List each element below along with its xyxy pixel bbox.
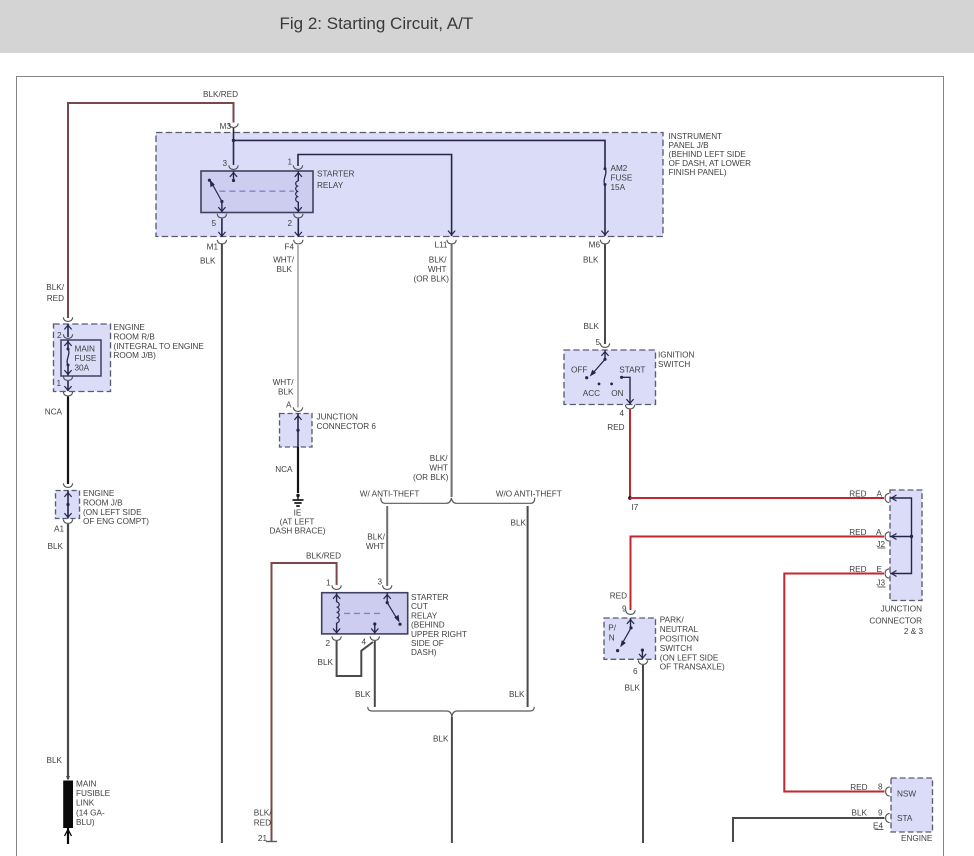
svg-text:3: 3 bbox=[222, 159, 227, 168]
svg-text:L11: L11 bbox=[434, 241, 447, 250]
svg-text:BLK: BLK bbox=[583, 256, 599, 265]
svg-text:BLK/RED: BLK/RED bbox=[203, 90, 238, 99]
svg-text:A: A bbox=[877, 489, 883, 498]
wire NCA from JC6 to ground bbox=[275, 447, 298, 493]
merge brace bbox=[368, 707, 535, 717]
wire BLK/RED from fusible link to M3 bbox=[46, 90, 238, 318]
svg-text:(AT LEFT: (AT LEFT bbox=[280, 518, 315, 527]
svg-text:BLK: BLK bbox=[511, 519, 527, 528]
wire BLK/WHT branch to starter cut relay pin 3 bbox=[366, 506, 387, 586]
svg-text:F4: F4 bbox=[284, 243, 294, 252]
connector pin 1 of starter relay bbox=[287, 158, 302, 170]
connector pin 3 of starter cut relay bbox=[377, 578, 391, 590]
svg-text:I7: I7 bbox=[632, 503, 639, 512]
svg-text:2: 2 bbox=[287, 219, 292, 228]
starter relay switch contacts bbox=[208, 171, 237, 213]
svg-text:A: A bbox=[876, 528, 882, 537]
svg-text:WHT: WHT bbox=[429, 464, 448, 473]
connector M6 bbox=[583, 240, 610, 265]
svg-text:ENGINE: ENGINE bbox=[114, 323, 146, 332]
wire pin1 to L11 bbox=[298, 155, 452, 237]
connector pin 5 of starter relay bbox=[211, 214, 226, 237]
svg-text:STARTER: STARTER bbox=[411, 593, 449, 602]
connector cups on JC 2&3 pins bbox=[876, 493, 889, 587]
svg-text:15A: 15A bbox=[611, 183, 626, 192]
svg-text:START: START bbox=[619, 366, 645, 375]
svg-text:1: 1 bbox=[287, 158, 292, 167]
svg-text:FUSE: FUSE bbox=[611, 173, 633, 182]
svg-text:BLK: BLK bbox=[355, 690, 371, 699]
svg-text:OF TRANSAXLE): OF TRANSAXLE) bbox=[660, 663, 725, 672]
connector pin 3 of starter relay bbox=[222, 159, 238, 169]
svg-text:PARK/: PARK/ bbox=[660, 616, 685, 625]
svg-text:6: 6 bbox=[633, 667, 638, 676]
svg-text:(BEHIND: (BEHIND bbox=[411, 621, 445, 630]
svg-text:30A: 30A bbox=[75, 363, 90, 372]
svg-text:IGNITION: IGNITION bbox=[658, 351, 694, 360]
svg-text:M6: M6 bbox=[589, 241, 601, 250]
engine room J/B box bbox=[56, 489, 150, 526]
svg-text:NEUTRAL: NEUTRAL bbox=[660, 625, 699, 634]
svg-text:N: N bbox=[609, 634, 615, 643]
svg-text:ROOM J/B): ROOM J/B) bbox=[114, 351, 157, 360]
ignition switch box bbox=[564, 350, 694, 405]
svg-text:MAIN: MAIN bbox=[76, 780, 97, 789]
svg-text:ENGINE: ENGINE bbox=[83, 489, 115, 498]
connector M1 bbox=[200, 240, 227, 266]
starter relay mechanical dashed link bbox=[219, 190, 293, 192]
svg-text:PANEL J/B: PANEL J/B bbox=[669, 141, 710, 150]
wire RED J2 to park/neutral switch bbox=[610, 528, 884, 614]
svg-text:POSITION: POSITION bbox=[660, 635, 699, 644]
connector M3 bbox=[220, 122, 239, 131]
svg-text:1: 1 bbox=[326, 579, 331, 588]
connector pin 4 of starter cut relay bbox=[361, 636, 379, 646]
svg-text:BLK/: BLK/ bbox=[429, 256, 447, 265]
instrument panel J/B box bbox=[156, 132, 751, 237]
svg-text:E4: E4 bbox=[873, 821, 883, 830]
starter cut relay coil bbox=[333, 593, 340, 634]
svg-text:BLK: BLK bbox=[852, 809, 868, 818]
svg-text:BLK/: BLK/ bbox=[367, 533, 385, 542]
svg-text:(BEHIND LEFT SIDE: (BEHIND LEFT SIDE bbox=[669, 150, 747, 159]
wire BLK loop pin2 to pin4 bbox=[318, 641, 373, 676]
svg-text:OF ENG COMPT): OF ENG COMPT) bbox=[83, 517, 149, 526]
connector pin 2 of R/B bbox=[57, 317, 73, 340]
svg-text:ROOM R/B: ROOM R/B bbox=[114, 332, 156, 341]
connector cups on engine pins bbox=[886, 787, 890, 823]
svg-text:BLK/: BLK/ bbox=[430, 454, 448, 463]
connector into engine room J/B bbox=[63, 483, 72, 487]
svg-text:J3: J3 bbox=[876, 579, 885, 588]
svg-text:MAIN: MAIN bbox=[75, 345, 96, 354]
node I7 bbox=[628, 496, 639, 512]
svg-text:DASH): DASH) bbox=[411, 648, 437, 657]
wire NCA to engine room J/B bbox=[45, 397, 68, 485]
anti-theft split brace bbox=[360, 490, 562, 504]
svg-text:BLK: BLK bbox=[433, 735, 449, 744]
svg-text:BLK: BLK bbox=[47, 756, 63, 765]
svg-text:(ON LEFT SIDE: (ON LEFT SIDE bbox=[660, 653, 719, 662]
main fuse 30A bbox=[61, 340, 101, 376]
wire BLK from P/N pin 6 down bbox=[625, 665, 643, 843]
svg-text:IE: IE bbox=[294, 509, 302, 518]
svg-text:WHT/: WHT/ bbox=[273, 256, 295, 265]
svg-text:J2: J2 bbox=[876, 540, 885, 549]
svg-text:BLK: BLK bbox=[278, 388, 294, 397]
starter relay box bbox=[201, 170, 355, 213]
wire L11 exit arrow bbox=[448, 231, 455, 235]
wire M3 into J/B with junction node bbox=[232, 128, 235, 165]
svg-text:RELAY: RELAY bbox=[317, 181, 344, 190]
connector A1 bbox=[54, 519, 73, 533]
connector pin 6 of P/N switch bbox=[633, 660, 648, 676]
wire BLK w/o anti-theft branch bbox=[509, 506, 528, 707]
svg-text:2 & 3: 2 & 3 bbox=[904, 627, 924, 636]
AM2 fuse 15A bbox=[601, 164, 632, 236]
svg-text:SWITCH: SWITCH bbox=[658, 360, 690, 369]
connector pin 2 of starter relay bbox=[287, 214, 303, 237]
engine box bbox=[891, 778, 933, 843]
svg-text:ACC: ACC bbox=[583, 389, 600, 398]
svg-text:SWITCH: SWITCH bbox=[660, 644, 692, 653]
svg-text:8: 8 bbox=[878, 783, 883, 792]
svg-text:OF DASH, AT LOWER: OF DASH, AT LOWER bbox=[669, 159, 752, 168]
svg-text:4: 4 bbox=[619, 409, 624, 418]
starter cut relay mechanical dashed link bbox=[344, 612, 380, 614]
svg-text:NSW: NSW bbox=[897, 790, 916, 799]
junction connector 2 & 3 box bbox=[869, 490, 923, 636]
engine room R/B box bbox=[54, 323, 205, 392]
svg-text:M3: M3 bbox=[220, 122, 232, 131]
svg-text:STA: STA bbox=[897, 814, 913, 823]
connector pin 4 of ignition switch bbox=[619, 405, 634, 418]
svg-text:BLK: BLK bbox=[48, 542, 64, 551]
svg-text:BLK/: BLK/ bbox=[46, 283, 64, 292]
svg-text:WHT: WHT bbox=[366, 542, 385, 551]
connector pin 1 of starter cut relay bbox=[326, 579, 341, 590]
svg-text:BLK/RED: BLK/RED bbox=[306, 552, 341, 561]
svg-text:RED: RED bbox=[850, 783, 867, 792]
svg-text:OFF: OFF bbox=[571, 366, 587, 375]
svg-text:2: 2 bbox=[325, 639, 330, 648]
wire RED I7 to junction connector pin A bbox=[630, 489, 884, 498]
wire F4 WHT/BLK down to junction connector 6 bbox=[273, 244, 298, 408]
connector 21 at page bottom bbox=[258, 834, 277, 843]
svg-text:3: 3 bbox=[377, 578, 382, 587]
svg-text:RED: RED bbox=[254, 819, 271, 828]
svg-text:(OR BLK): (OR BLK) bbox=[414, 275, 450, 284]
connector L11 bbox=[414, 240, 457, 284]
svg-text:21: 21 bbox=[258, 834, 268, 843]
svg-text:RED: RED bbox=[607, 423, 624, 432]
svg-text:FUSE: FUSE bbox=[75, 354, 97, 363]
svg-text:P/: P/ bbox=[608, 624, 616, 633]
svg-text:(INTEGRAL TO ENGINE: (INTEGRAL TO ENGINE bbox=[114, 342, 205, 351]
wire BLK/RED from connector 21 to starter cut relay pin 1 bbox=[254, 552, 341, 843]
connector pin 1 of R/B bbox=[56, 376, 72, 396]
svg-text:WHT: WHT bbox=[428, 265, 447, 274]
svg-text:(OR BLK): (OR BLK) bbox=[413, 473, 449, 482]
ignition switch contacts bbox=[571, 350, 645, 405]
svg-text:BLK: BLK bbox=[318, 658, 334, 667]
wire M1 BLK down to page bottom bbox=[221, 244, 223, 843]
connector pin 2 of starter cut relay bbox=[325, 636, 341, 648]
wire BLK merged down bbox=[433, 717, 452, 843]
svg-text:BLK: BLK bbox=[584, 322, 600, 331]
svg-text:UPPER RIGHT: UPPER RIGHT bbox=[411, 630, 467, 639]
svg-text:SIDE OF: SIDE OF bbox=[411, 639, 444, 648]
P/N switch contacts bbox=[616, 618, 646, 659]
svg-text:RED: RED bbox=[47, 294, 64, 303]
svg-text:WHT/: WHT/ bbox=[273, 378, 295, 387]
svg-text:ON: ON bbox=[611, 389, 623, 398]
svg-text:A1: A1 bbox=[54, 525, 64, 534]
svg-text:LINK: LINK bbox=[76, 799, 95, 808]
svg-text:M1: M1 bbox=[207, 243, 219, 252]
svg-text:5: 5 bbox=[595, 338, 600, 347]
svg-text:JUNCTION: JUNCTION bbox=[881, 605, 922, 614]
svg-text:BLU): BLU) bbox=[76, 818, 95, 827]
wire BLK pin4 to merge bbox=[355, 641, 375, 707]
svg-text:BLK/: BLK/ bbox=[254, 809, 272, 818]
svg-text:W/ ANTI-THEFT: W/ ANTI-THEFT bbox=[360, 490, 420, 499]
starter cut relay box bbox=[322, 593, 467, 658]
svg-text:RED: RED bbox=[610, 592, 627, 601]
svg-text:FINISH PANEL): FINISH PANEL) bbox=[669, 168, 727, 177]
svg-text:A: A bbox=[286, 401, 292, 410]
svg-text:(14 GA-: (14 GA- bbox=[76, 808, 105, 817]
svg-text:RED: RED bbox=[849, 489, 866, 498]
svg-text:1: 1 bbox=[56, 379, 61, 388]
svg-text:DASH BRACE): DASH BRACE) bbox=[270, 527, 326, 536]
svg-text:CONNECTOR: CONNECTOR bbox=[869, 616, 922, 625]
starter relay coil bbox=[295, 171, 302, 213]
main fusible link bbox=[63, 776, 110, 844]
connector pin 5 of ignition switch bbox=[595, 338, 609, 347]
svg-text:RED: RED bbox=[849, 528, 866, 537]
svg-text:FUSIBLE: FUSIBLE bbox=[76, 789, 111, 798]
header bar bbox=[0, 0, 974, 53]
wire L11 BLK/WHT down to split bbox=[413, 244, 452, 497]
svg-text:NCA: NCA bbox=[45, 408, 63, 417]
connector F4 bbox=[273, 240, 303, 274]
ground IE bbox=[270, 494, 326, 536]
svg-text:CONNECTOR 6: CONNECTOR 6 bbox=[317, 422, 377, 431]
svg-text:INSTRUMENT: INSTRUMENT bbox=[669, 132, 723, 141]
connector pin 9 of P/N switch bbox=[626, 610, 635, 614]
svg-text:BLK: BLK bbox=[509, 690, 525, 699]
svg-text:NCA: NCA bbox=[275, 465, 293, 474]
svg-text:BLK: BLK bbox=[200, 257, 216, 266]
svg-text:9: 9 bbox=[878, 809, 883, 818]
svg-text:ROOM J/B: ROOM J/B bbox=[83, 498, 123, 507]
svg-text:CUT: CUT bbox=[411, 602, 428, 611]
wire BLK to main fusible link bbox=[47, 524, 68, 779]
wire BLK to engine STA bbox=[733, 809, 885, 843]
svg-text:4: 4 bbox=[361, 638, 366, 647]
svg-text:BLK: BLK bbox=[625, 684, 641, 693]
wire RED ignition to node I7 bbox=[607, 410, 630, 499]
svg-text:Fig 2: Starting Circuit, A/T: Fig 2: Starting Circuit, A/T bbox=[280, 14, 474, 33]
svg-text:AM2: AM2 bbox=[611, 164, 628, 173]
svg-text:W/O ANTI-THEFT: W/O ANTI-THEFT bbox=[496, 490, 562, 499]
svg-text:JUNCTION: JUNCTION bbox=[317, 413, 358, 422]
wire RED J3 to engine NSW bbox=[784, 565, 884, 792]
starter cut relay switch bbox=[371, 593, 401, 634]
svg-text:BLK: BLK bbox=[277, 265, 293, 274]
svg-text:RELAY: RELAY bbox=[411, 611, 438, 620]
svg-text:ENGINE: ENGINE bbox=[901, 834, 933, 843]
svg-text:2: 2 bbox=[57, 331, 62, 340]
svg-text:5: 5 bbox=[211, 219, 216, 228]
junction connector 6 box bbox=[280, 413, 377, 448]
wire bus to AM2 fuse bbox=[234, 140, 606, 168]
svg-text:(ON LEFT SIDE: (ON LEFT SIDE bbox=[83, 508, 142, 517]
svg-text:STARTER: STARTER bbox=[317, 170, 355, 179]
park/neutral position switch box bbox=[604, 616, 725, 672]
svg-text:E: E bbox=[877, 565, 883, 574]
svg-text:RED: RED bbox=[849, 565, 866, 574]
connector A of junction connector 6 bbox=[286, 401, 303, 412]
wire M6 BLK down to ignition switch bbox=[584, 244, 605, 344]
